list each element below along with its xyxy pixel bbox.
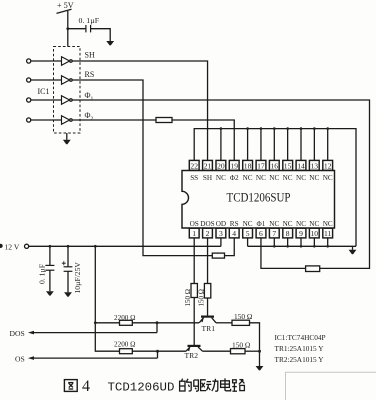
pin box 3 (bottom) [216,228,226,238]
svg-text:OD: OD [216,220,226,228]
pin box 10 (bottom) [309,228,319,238]
caption text TCD1206UD [108,381,175,395]
wire input SH [31,60,62,62]
svg-text:NC: NC [269,220,279,228]
wire pin7 stub [273,238,275,246]
svg-text:7: 7 [272,229,276,238]
wire pin9 stub [300,238,302,246]
svg-text:DOS: DOS [10,329,25,338]
label TR1 [202,324,216,333]
wire +5V vertical into IC1 box [67,11,69,47]
pin box 4 (bottom) [229,228,239,238]
node TR outputs join [258,350,261,353]
svg-text:NC: NC [269,174,279,182]
wire RS resistor to pin4 [225,238,235,256]
wire net RS down and right [72,80,212,256]
node pin8/bus [286,245,289,248]
pin box 12 (top) [323,160,333,170]
wire pin14 stub [300,129,302,161]
node +5V/C1 junction [66,27,69,30]
resistor R150c 150ohm [232,312,253,325]
inverter U1a [62,57,73,66]
pin box 13 (top) [309,160,319,170]
svg-text:NC: NC [256,174,266,182]
wire pin13 stub [313,129,315,161]
wire R150a to TR2 base [193,298,195,346]
wire OS out line [32,357,158,359]
svg-text:TR2: TR2 [185,351,199,360]
node pin16/bus [273,127,276,130]
svg-text:RS: RS [230,220,239,228]
ground stub on bottom NC bus [352,246,354,250]
pin box 18 (top) [243,160,253,170]
transistor TR1 [199,317,216,323]
node pin17/bus [260,127,263,130]
wire R150c to ground rail [250,323,260,366]
node pin20/bus [220,127,223,130]
IC U2 name [227,191,291,205]
wire pin2 DOS net down to R150b [207,238,209,284]
pin box 2 (bottom) [203,228,213,238]
wire net PHI2 to resistor [72,119,156,121]
svg-text:SH: SH [85,51,95,60]
svg-text:18: 18 [244,161,252,170]
label OS [15,355,25,364]
pin box 16 (top) [269,160,279,170]
note TR2 type [275,355,325,364]
inverter U1c [62,96,73,105]
caption glyph DONG [206,379,218,391]
svg-text:3: 3 [219,229,223,238]
node rail/C2 [49,245,52,248]
resistor R150b vertical [198,284,211,307]
wire net PHI1 right and down [72,100,369,268]
svg-text:11: 11 [324,229,332,238]
resistor R150d 150ohm [231,340,251,354]
svg-text:NC: NC [309,220,319,228]
node pin14/bus [300,127,303,130]
ground at NC bus [349,250,357,254]
svg-text:NC: NC [323,174,333,182]
wire pin12 stub [327,129,329,161]
node pin7/bus [273,245,276,248]
node pin10/bus [313,245,316,248]
ground at TR output rail [256,366,264,370]
svg-text:TR1: TR1 [202,324,216,333]
terminal input RS [27,78,31,82]
capacitor C3 10uF/25V [62,246,82,293]
node pin11/bus [326,245,329,248]
node pin18/bus [246,127,249,130]
svg-text:0. 1µF: 0. 1µF [79,16,100,25]
wire R150b to TR1 base [207,298,209,316]
pin box 22 (top) [189,160,199,170]
svg-text:2200 Ω: 2200 Ω [114,341,136,349]
IC1 dashed box [54,47,81,134]
svg-text:17: 17 [257,161,265,170]
wire pin5 stub to bottom bus [247,238,249,246]
terminal 12V [25,244,29,248]
label RS [85,70,95,79]
svg-text:TCD1206SUP: TCD1206SUP [227,191,291,205]
wire PHI1 resistor to pin6 [261,238,306,269]
svg-text:4: 4 [232,229,236,238]
pin box 21 (top) [203,160,213,170]
+5V supply label [57,1,74,10]
wire top NC bus (SS pin22 to right side down to bottom bus) [194,129,356,247]
node pin9/bus [300,245,303,248]
svg-text:12: 12 [324,161,332,170]
svg-text:NC: NC [296,220,306,228]
pin box 11 (bottom) [323,228,333,238]
ground below IC1 [63,140,71,144]
svg-text:10: 10 [311,229,319,238]
wire pin15 stub [287,129,289,161]
svg-text:SH: SH [203,174,212,182]
label PHI2 [85,111,94,122]
pin box 9 (bottom) [296,228,306,238]
arrow DOS terminal [28,331,34,335]
svg-text:14: 14 [297,161,305,170]
wire input RS [31,79,62,81]
pin box 1 (bottom) [189,228,199,238]
pin box 6 (bottom) [256,228,266,238]
svg-text:150 Ω: 150 Ω [198,289,206,306]
svg-text:NC: NC [309,174,319,182]
svg-text:OS: OS [190,220,199,228]
wire pullup feed vertical [95,246,119,351]
svg-text:IC1: IC1 [38,87,50,96]
svg-text:4: 4 [82,378,90,395]
wire OS tap down [157,351,159,358]
note TR1 type [275,344,325,353]
wire R2200 DOS to TR1 emitter [132,322,199,324]
capacitor C1 0.1uF [79,16,100,32]
ground at C3 [64,292,72,296]
ground at C1 [106,41,114,45]
svg-text:TR2:25A1015 Y: TR2:25A1015 Y [275,355,325,364]
svg-text:21: 21 [204,161,212,170]
pin box 5 (bottom) [243,228,253,238]
wire R2200 OS to TR2 emitter [132,350,186,352]
node OS tap [156,350,159,353]
wire pin11 stub [327,238,329,246]
resistor R 2200ohm (DOS) [114,314,136,325]
wire pin8 stub [287,238,289,246]
caption glyph DE [180,379,192,391]
wire pin17 stub [260,129,262,161]
terminal input PHI2 [27,118,31,122]
+5V power tick [57,9,72,13]
terminal input PHI1 [27,98,31,102]
pin box 20 (top) [216,160,226,170]
svg-text:Φ2: Φ2 [230,174,239,182]
wire input PHI1 [31,99,62,101]
svg-text:150 Ω: 150 Ω [232,340,251,349]
wire input PHI2 [31,119,62,121]
wire net SH to pin21 [72,61,207,160]
label PHI1 [85,91,94,102]
svg-text:8: 8 [286,229,290,238]
svg-text:NC: NC [243,174,253,182]
wire DOS out line [32,332,157,334]
inverter U1d [62,116,73,125]
svg-text:NC: NC [243,220,253,228]
note IC1 type [275,333,326,342]
wire pin3 OD stub to 12V rail [220,238,222,246]
svg-text:12 V: 12 V [5,242,20,251]
svg-text:150 Ω: 150 Ω [184,289,192,306]
svg-text:Φ1: Φ1 [256,220,265,228]
svg-text:DOS: DOS [200,220,214,228]
svg-text:SS: SS [190,174,198,182]
svg-text:NC: NC [283,220,293,228]
svg-text:19: 19 [230,161,238,170]
wire bottom NC bus [248,245,356,247]
IC1 label [38,87,50,96]
svg-text:20: 20 [217,161,225,170]
label DOS [10,329,25,338]
svg-text:NC: NC [216,174,226,182]
resistor R150a vertical [184,284,197,307]
wire TR1 collector to R150c [216,322,232,324]
transistor TR2 [186,346,203,352]
IC U2 TCD1206SUP body [182,171,335,229]
node pin15/bus [286,127,289,130]
node feed/R-DOS branch [94,321,97,324]
wire TR2 collector to R150d [203,350,231,352]
wire feed to R 2200 DOS [95,322,119,324]
pin box 17 (top) [256,160,266,170]
svg-text:0. 1µF: 0. 1µF [37,264,46,284]
svg-text:16: 16 [271,161,279,170]
ground at C2 [46,291,54,295]
wire pin1 OS net down to R150a [193,238,195,284]
wire PHI2 resistor to pin19 [172,120,234,160]
node pin13/bus [313,127,316,130]
node rail/C3 [67,245,70,248]
svg-text:TR1:25A1015 Y: TR1:25A1015 Y [275,344,325,353]
resistor on PHI2 line [156,118,172,123]
svg-text:5: 5 [246,229,250,238]
faint box corner bottom right [286,372,376,400]
svg-text:RS: RS [85,70,95,79]
svg-text:NC: NC [283,174,293,182]
wire DOS tap down [156,323,158,333]
label 12 V [5,242,20,251]
svg-text:NC: NC [323,220,333,228]
svg-text:22: 22 [190,161,198,170]
svg-text:6: 6 [259,229,263,238]
pin box 7 (bottom) [269,228,279,238]
resistor R 2200ohm (OS) [114,341,136,354]
caption glyph QU [194,380,206,391]
svg-text:NC: NC [296,174,306,182]
wire pin10 stub [313,238,315,246]
wire pin20 stub [220,129,222,161]
caption glyph TU (figure) [64,380,77,392]
label SH [85,51,95,60]
label TR2 [185,351,199,360]
wire pin16 stub [273,129,275,161]
capacitor C2 0.1uF [37,246,54,291]
caption glyph DIAN [221,378,231,390]
svg-text:TCD1206UD: TCD1206UD [108,381,175,395]
svg-text:10µF/25V: 10µF/25V [73,262,82,294]
wire R150d to ground rail [245,350,260,352]
svg-text:15: 15 [284,161,292,170]
arrow OS terminal [28,356,34,360]
svg-text:13: 13 [311,161,319,170]
node DOS tap [156,321,159,324]
pin box 8 (bottom) [283,228,293,238]
bullet at left edge 12V [0,244,3,248]
svg-text:9: 9 [299,229,303,238]
wire 12V rail [29,245,221,247]
wire IC1 box to ground [66,133,68,140]
caption text 4 [82,378,90,395]
svg-text:150 Ω: 150 Ω [234,312,253,321]
pin box 14 (top) [296,160,306,170]
svg-text:OS: OS [15,355,25,364]
node rail/pullup feed [94,245,97,248]
inverter U1b [62,76,73,85]
svg-text:1: 1 [192,229,196,238]
svg-text:IC1:TC74HC04P: IC1:TC74HC04P [275,333,326,342]
pin box 19 (top) [229,160,239,170]
pin box 15 (top) [283,160,293,170]
wire pin18 stub [247,129,249,161]
svg-text:2: 2 [206,229,210,238]
svg-text:2200 Ω: 2200 Ω [114,314,136,322]
resistor on PHI1 line [306,266,320,272]
wire C1 to ground [91,29,111,41]
terminal input SH [27,59,31,63]
node pin12/bus [326,127,329,130]
caption glyph LU [232,380,244,392]
resistor on RS line [212,253,224,258]
wire +5V to C1 [68,28,86,30]
